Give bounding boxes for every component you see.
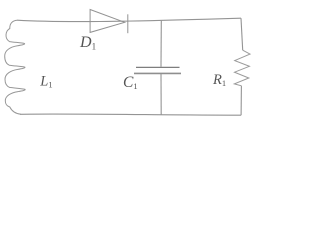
capacitor C1 xyxy=(134,21,181,115)
wire bottom xyxy=(20,114,241,115)
resistor R1 xyxy=(234,50,250,86)
svg-text:L1: L1 xyxy=(39,73,52,89)
wire right upper xyxy=(241,18,243,50)
svg-text:D1: D1 xyxy=(79,34,96,51)
diode D1 xyxy=(90,10,128,34)
svg-text:C1: C1 xyxy=(123,74,138,91)
svg-text:R1: R1 xyxy=(212,72,226,88)
inductor L1 xyxy=(5,20,25,114)
wire top xyxy=(17,18,241,21)
wire right lower xyxy=(240,86,242,115)
